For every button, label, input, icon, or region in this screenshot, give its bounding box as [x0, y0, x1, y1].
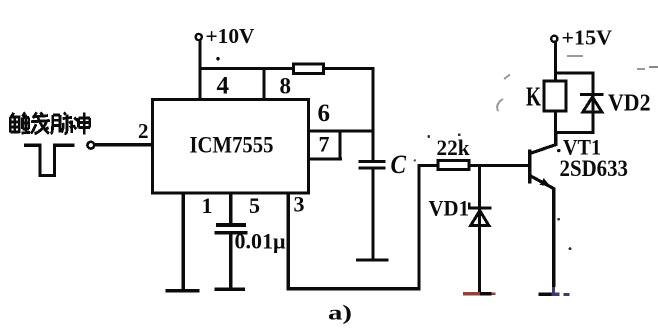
- wire junction down through VD1: [478, 164, 481, 228]
- resistor 22k: [438, 160, 469, 169]
- ground (VD1, red tinted): [463, 292, 496, 295]
- wire pin 3 horizontal: [287, 287, 421, 290]
- pin 5 label: [249, 193, 260, 218]
- pin 2 label: [138, 119, 149, 143]
- noise dot right of relay: [557, 218, 571, 250]
- svg-text:4: 4: [217, 73, 230, 100]
- svg-text:K: K: [526, 82, 541, 112]
- wire emitter tail (blue tinted): [552, 287, 555, 295]
- noise dot near pin 4: [216, 57, 220, 61]
- ground (emitter): [539, 292, 570, 296]
- svg-text:7: 7: [319, 132, 330, 157]
- svg-text:ICM7555: ICM7555: [190, 133, 274, 158]
- wire 22k to base: [469, 164, 529, 167]
- svg-text:+10V: +10V: [206, 24, 255, 48]
- pin 1 label: [202, 193, 213, 218]
- wire branch to VD2 top: [554, 72, 594, 75]
- transistor VT1 base bar: [528, 150, 532, 184]
- transistor VT1 collector lead: [530, 133, 557, 154]
- wire capacitor C2 to ground: [229, 234, 232, 288]
- svg-text:0.01μ: 0.01μ: [235, 229, 287, 254]
- svg-text:3: 3: [294, 192, 305, 217]
- transistor VT1 emitter lead with arrow: [530, 176, 554, 189]
- capacitor C: [359, 160, 386, 170]
- pin 3 label: [294, 192, 305, 217]
- wire emitter to ground: [552, 188, 555, 288]
- relay K coil: [544, 81, 566, 111]
- wire +15V down to relay: [554, 42, 557, 81]
- noise arc left of K: [497, 75, 510, 112]
- wire input to pin 2: [95, 143, 154, 146]
- wire VD2 top vertical: [592, 72, 595, 114]
- svg-text:C: C: [391, 150, 407, 179]
- svg-text:VD2: VD2: [608, 91, 651, 117]
- wire +10V vertical: [198, 40, 201, 98]
- label +10V: [206, 24, 255, 48]
- capacitor C2 0.01u: [215, 223, 248, 234]
- wire pin 1 to ground: [182, 193, 186, 291]
- pin 6 label: [318, 100, 331, 127]
- label C: [391, 150, 407, 179]
- noise dashes right margin: [637, 66, 658, 70]
- pin 7 box: [309, 130, 342, 160]
- svg-text:1: 1: [202, 193, 213, 218]
- wire to 22k resistor: [418, 164, 439, 167]
- label VD2: [608, 91, 651, 117]
- label 2SD633: [560, 156, 629, 182]
- terminal +15V: [551, 36, 557, 42]
- trigger pulse waveform: [24, 145, 75, 175]
- ground (capacitor C2): [215, 288, 246, 291]
- wire up to 22k: [418, 164, 421, 290]
- diode VD2: [580, 93, 604, 112]
- terminal input: [87, 142, 94, 149]
- terminal +10V: [196, 34, 202, 40]
- wire RC node vertical down to capacitor C: [371, 67, 374, 162]
- wire pin 3 down: [287, 193, 290, 290]
- label VD1: [429, 196, 470, 221]
- svg-text:5: 5: [249, 193, 260, 218]
- label 0.01u: [235, 229, 287, 254]
- noise dash above relay: [567, 55, 583, 57]
- pin 4 label: [217, 73, 230, 100]
- resistor R (top): [294, 64, 324, 74]
- label a): [328, 301, 352, 325]
- ground (capacitor C): [356, 258, 389, 261]
- diode VD1: [468, 203, 492, 226]
- label VT1: [557, 135, 601, 160]
- wire VD2 bottom vertical: [592, 95, 595, 134]
- svg-text:2: 2: [138, 119, 149, 143]
- trigger pulse label (Chinese: 触发脉冲) drawn strokes: [10, 112, 90, 134]
- svg-text:6: 6: [318, 100, 331, 127]
- wire relay to collector junction: [554, 111, 557, 134]
- wire VD2 bottom to relay line: [554, 131, 594, 134]
- label +15V: [562, 26, 613, 50]
- wire capacitor C to ground: [371, 170, 374, 259]
- label 22k: [437, 135, 471, 160]
- svg-text:VD1: VD1: [429, 196, 470, 221]
- wire top horizontal to resistor: [198, 67, 293, 70]
- timer IC U1 ICM7555: [153, 100, 309, 194]
- pin 7 label: [319, 132, 330, 157]
- wire resistor to RC node: [325, 67, 374, 70]
- svg-text:8: 8: [280, 74, 292, 99]
- wire pin 5 to capacitor: [229, 193, 232, 224]
- svg-text:a): a): [328, 301, 352, 325]
- label K: [526, 82, 541, 112]
- pin 8 label: [280, 74, 292, 99]
- svg-text:+15V: +15V: [562, 26, 613, 50]
- pin 4 box separator: [263, 67, 266, 98]
- noise dots near 22k: [414, 133, 461, 161]
- ground (pin 1): [166, 289, 200, 292]
- pin 6 wire: [309, 130, 375, 133]
- svg-text:2SD633: 2SD633: [560, 156, 629, 182]
- wire VD1 to ground: [478, 210, 481, 294]
- svg-text:22k: 22k: [437, 135, 471, 160]
